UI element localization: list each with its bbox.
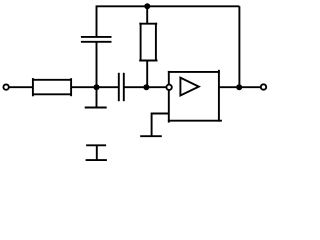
bottom symbol bottom bar [86,159,107,161]
bottom symbol stem [96,145,98,160]
wire node X up to C2 bottom plate [96,42,98,88]
resistor R1 [32,78,72,96]
bottom symbol top bar [86,144,106,146]
wire R2 to inverting node [146,61,148,88]
wire op-amp output to terminal [219,86,261,88]
capacitor C1 [118,73,120,101]
ground stub at node X [96,87,98,107]
node X junction [94,84,100,90]
input terminal [3,84,8,89]
op-amp U1 triangle [180,78,198,96]
ground [140,135,162,137]
op-amp U1 body [168,70,222,123]
wire R1 to C1 through node X [71,86,118,88]
wire feedback from top rail to output [238,6,240,87]
wire input to R1 [9,86,33,88]
junction dot output node [236,84,242,90]
junction dot inverting node [143,84,149,90]
op-amp U1 input bubble [166,85,171,90]
wire C2 top plate to top rail [97,6,240,37]
ground bar at node X [85,107,107,109]
capacitor C2 [81,41,112,43]
junction dot top rail [144,3,150,9]
output terminal [261,84,266,89]
wire top rail to R2 [146,6,148,23]
wire non-inverting pin to ground [152,114,169,137]
resistor R2 [139,23,157,62]
wire C1 to op-amp input bubble [124,86,167,88]
